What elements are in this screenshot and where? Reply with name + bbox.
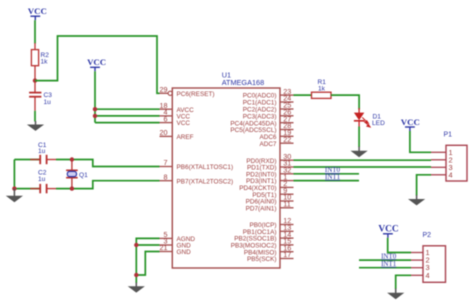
resistor R2	[34, 43, 36, 50]
power symbol VCC (P2 rail)	[383, 234, 393, 238]
svg-text:VCC: VCC	[378, 225, 399, 235]
power symbol VCC (AVCC rail)	[90, 67, 100, 71]
svg-text:8: 8	[164, 172, 168, 181]
svg-text:PC6(RESET): PC6(RESET)	[177, 91, 215, 98]
wire GND pin3 join	[136, 244, 159, 246]
U1 pin 9 PD5(T1)	[280, 193, 294, 195]
svg-text:1k: 1k	[41, 59, 49, 66]
wire C3 to ground	[34, 111, 36, 122]
ground symbol (P1 ground)	[416, 195, 418, 200]
svg-text:PC1(ADC1): PC1(ADC1)	[243, 100, 277, 107]
crystal Q1	[71, 160, 73, 171]
power symbol VCC (top-left)	[30, 16, 40, 20]
U1 pin 30 PD0(RXD)	[280, 159, 294, 161]
capacitor C2	[14, 188, 40, 190]
wire XTAL left vertical	[13, 160, 15, 189]
wire GND pin21 detour	[136, 252, 159, 276]
junction gnd join 2	[134, 273, 138, 277]
svg-text:1u: 1u	[38, 148, 46, 155]
wire P2.4 to ground	[396, 275, 411, 289]
svg-text:VCC: VCC	[28, 6, 47, 16]
U1 pin 22 ADC7	[280, 142, 294, 144]
wire XTAL2 to pin8	[56, 181, 160, 189]
svg-text:VCC: VCC	[401, 117, 420, 127]
U1 pin 11 PD7(AIN1)	[280, 207, 294, 209]
U1 pin 32 PD2(INT0)	[280, 173, 294, 175]
svg-text:AREF: AREF	[177, 134, 194, 141]
junction VCC rail/AVCC	[93, 107, 97, 111]
wire INT0 to P2.2	[359, 259, 411, 261]
U1 pin 21 GND	[160, 251, 173, 253]
U1 pin 7 PB6(XTAL1TOSC1)	[160, 166, 173, 168]
wire to VCC pin 4	[95, 115, 160, 117]
U1 pin 10 PD6(AIN0)	[280, 200, 294, 202]
wire AGND down	[136, 238, 159, 283]
svg-text:PB6(XTAL1TOSC1): PB6(XTAL1TOSC1)	[177, 164, 234, 171]
svg-text:P2: P2	[423, 232, 432, 239]
svg-text:Q1: Q1	[79, 172, 88, 179]
U1 pin 1 PD3(INT1)	[280, 180, 294, 182]
U1 pin 29 PC6(RESET)	[160, 92, 169, 94]
P2 pin 3	[411, 267, 423, 269]
svg-text:1u: 1u	[44, 99, 52, 106]
P2 pin 4	[411, 274, 423, 276]
U1 pin 14 PB2(SSOC1B)	[280, 237, 294, 239]
wire XTAL1 to pin7	[56, 160, 160, 167]
capacitor C1	[14, 159, 40, 161]
U1 pin 3 GND	[160, 244, 173, 246]
ground symbol (P2 ground)	[395, 289, 397, 294]
P1 pin 4	[431, 174, 446, 176]
op IC U1 ATMEGA168 body	[172, 88, 280, 268]
svg-text:1k: 1k	[318, 85, 326, 92]
ground symbol (LED ground)	[358, 147, 360, 152]
svg-text:20: 20	[160, 128, 168, 137]
svg-text:GND: GND	[177, 249, 192, 256]
svg-text:29: 29	[160, 85, 168, 94]
svg-text:P1: P1	[444, 132, 453, 139]
junction gnd join 1	[134, 243, 138, 247]
wire to VCC pin 6	[95, 122, 160, 124]
wire VCC to R2	[34, 20, 36, 43]
svg-text:11: 11	[283, 200, 290, 209]
svg-text:ADC7: ADC7	[259, 141, 276, 148]
U1 pin 23 PC0(ADC0)	[280, 94, 294, 96]
svg-text:PD7(AIN1): PD7(AIN1)	[246, 205, 277, 212]
P1 pin 1	[431, 151, 446, 153]
wire pin23 to R1	[294, 94, 312, 96]
ground symbol (below C3)	[35, 121, 37, 126]
P2 pin 1	[411, 252, 423, 254]
svg-text:7: 7	[164, 158, 168, 167]
junction Q1 top	[70, 157, 74, 161]
svg-text:1u: 1u	[38, 176, 46, 183]
svg-text:PB7(XTAL2TOSC2): PB7(XTAL2TOSC2)	[177, 178, 234, 185]
U1 pin 13 PB1(OC1A)	[280, 230, 294, 232]
U1 pin 4 VCC	[160, 115, 173, 117]
wire INT0 from PD2	[294, 173, 360, 175]
wire RESET net	[35, 36, 160, 93]
svg-text:6: 6	[164, 114, 168, 123]
wire LED to ground	[358, 127, 360, 148]
U1 pin 28 PC5(ADC5SCL)	[280, 129, 294, 131]
svg-text:PB5(SCK): PB5(SCK)	[247, 256, 276, 263]
U1 pin 15 PB3(MOSIOC2)	[280, 244, 294, 246]
wire PD1 to P1.3	[294, 166, 432, 168]
wire VCC to P2.1	[388, 238, 411, 253]
wire INT1 to P2.3	[359, 267, 411, 269]
svg-text:4: 4	[426, 271, 430, 280]
U1 pin 5 AGND	[160, 237, 173, 239]
ground symbol (crystal circuit)	[13, 189, 15, 197]
svg-text:22: 22	[283, 135, 291, 144]
svg-text:LED: LED	[372, 120, 385, 127]
svg-text:INT1: INT1	[325, 173, 341, 181]
wire VCC to P1.1	[410, 131, 431, 152]
wire VCC rail vertical	[94, 71, 96, 122]
svg-text:VCC: VCC	[87, 57, 106, 67]
P1 pin 3	[431, 166, 446, 168]
U1 pin 19 ADC6	[280, 135, 294, 137]
U1 pin 16 PB4(MISO)	[280, 251, 294, 253]
P2 pin 2	[411, 259, 423, 261]
U1 pin 24 PC1(ADC1)	[280, 101, 294, 103]
svg-text:ATMEGA168: ATMEGA168	[222, 78, 264, 87]
junction XTAL gnd corner	[12, 186, 16, 190]
wire PD0 to P1.2	[294, 159, 432, 161]
power symbol VCC (P1 rail)	[405, 127, 415, 131]
connector P2 body	[423, 246, 446, 282]
U1 pin 8 PB7(XTAL2TOSC2)	[160, 180, 173, 182]
svg-text:17: 17	[283, 250, 291, 259]
capacitor C3	[34, 81, 36, 92]
U1 pin 31 PD1(TXD)	[280, 166, 294, 168]
junction VCC rail/VCC4	[93, 114, 97, 118]
connector P1 body	[446, 145, 467, 181]
svg-text:INT1: INT1	[381, 260, 397, 268]
svg-text:21: 21	[160, 243, 168, 252]
junction Q1 bottom	[70, 186, 74, 190]
U1 pin 27 PC4(ADC45DA)	[280, 122, 294, 124]
U1 pin 25 PC2(ADC2)	[280, 108, 294, 110]
junction R2/C3/net junction	[33, 78, 37, 82]
U1 pin 2 PD4(XCKT0)	[280, 186, 294, 188]
P1 pin 2	[431, 159, 446, 161]
wire P1.4 to ground	[417, 175, 431, 196]
LED D1	[358, 108, 360, 113]
wire INT1 from PD3	[294, 180, 360, 182]
svg-text:4: 4	[449, 170, 453, 179]
U1 pin 20 AREF	[160, 135, 173, 137]
U1 pin 6 VCC	[160, 122, 173, 124]
U1 pin 12 PB0(ICP)	[280, 224, 294, 226]
ground symbol (IC ground)	[135, 283, 137, 288]
U1 pin 18 AVCC	[160, 108, 173, 110]
wire R1 to LED	[331, 95, 359, 109]
wire to AVCC pin 18	[95, 108, 160, 110]
resistor R1	[312, 92, 332, 98]
U1 pin 26 PC3(ADC3)	[280, 115, 294, 117]
U1 pin 17 PB5(SCK)	[280, 258, 294, 260]
svg-text:VCC: VCC	[177, 120, 191, 127]
